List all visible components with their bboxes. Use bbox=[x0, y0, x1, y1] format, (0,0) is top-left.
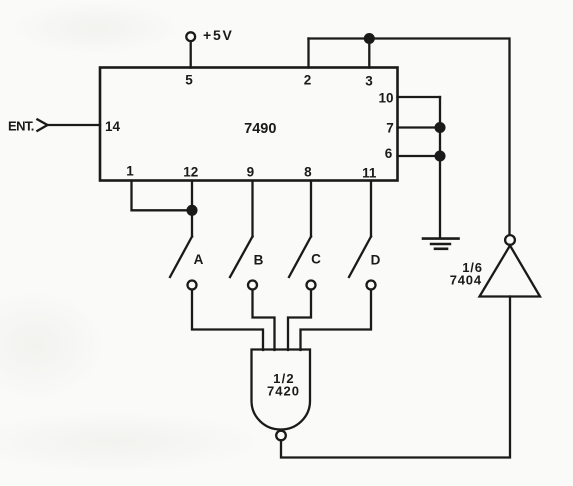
wire pin 12 down bbox=[191, 181, 193, 237]
inverter U3 7404 triangle bbox=[480, 246, 541, 297]
svg-text:14: 14 bbox=[105, 119, 121, 134]
wire switch A to gate input bbox=[192, 290, 263, 351]
svg-text:C: C bbox=[311, 252, 321, 267]
switch D terminal bbox=[367, 281, 376, 290]
wire switch C to gate input bbox=[288, 290, 311, 351]
svg-text:1: 1 bbox=[126, 163, 134, 178]
junction pin 7 bbox=[436, 123, 445, 132]
svg-text:6: 6 bbox=[385, 146, 393, 161]
wire pin 1 bbox=[132, 181, 191, 210]
inverter bubble bbox=[505, 235, 515, 245]
wire switch B to gate input bbox=[253, 290, 275, 351]
svg-text:B: B bbox=[254, 253, 264, 268]
svg-text:7420: 7420 bbox=[267, 384, 300, 399]
svg-text:7490: 7490 bbox=[244, 121, 276, 137]
wire pin 5 to +5V bbox=[190, 41, 192, 67]
switch B arm bbox=[230, 237, 253, 278]
switch B terminal bbox=[248, 281, 257, 290]
junction pin1-pin12 bbox=[188, 206, 197, 215]
wire pin 9 down bbox=[251, 181, 253, 237]
wire pin 6 bbox=[398, 155, 441, 157]
svg-text:8: 8 bbox=[304, 165, 312, 180]
svg-text:11: 11 bbox=[362, 166, 377, 181]
svg-text:7: 7 bbox=[386, 121, 394, 136]
NAND gate U2 7420 body bbox=[252, 350, 311, 430]
wire pins 10,7,6 to ground bbox=[439, 97, 441, 238]
svg-text:+5V: +5V bbox=[203, 27, 234, 43]
svg-text:A: A bbox=[194, 252, 204, 267]
supply +5V terminal bbox=[186, 32, 195, 41]
wire NAND output to inverter input bbox=[281, 297, 510, 458]
NAND output bubble bbox=[276, 431, 286, 441]
wire top bus pins 2,3 to inverter output bubble bbox=[309, 39, 510, 235]
svg-text:7404: 7404 bbox=[450, 273, 482, 288]
svg-text:3: 3 bbox=[365, 74, 373, 89]
wire pin 7 bbox=[398, 126, 441, 128]
switch C terminal bbox=[307, 281, 316, 290]
svg-text:10: 10 bbox=[378, 91, 393, 106]
junction pin 6 bbox=[436, 152, 445, 161]
switch A terminal bbox=[188, 281, 197, 290]
switch A arm bbox=[170, 237, 192, 278]
wire pin 8 down bbox=[310, 181, 312, 237]
IC U1 7490 body bbox=[100, 68, 398, 181]
svg-text:2: 2 bbox=[304, 73, 312, 88]
wire switch D to gate input bbox=[301, 290, 372, 351]
svg-text:12: 12 bbox=[183, 165, 198, 180]
wire pin 10 bbox=[398, 96, 441, 98]
wire pin 3 up bbox=[368, 39, 370, 68]
switch D arm bbox=[349, 237, 371, 278]
svg-text:9: 9 bbox=[247, 165, 255, 180]
wire pin 2 up bbox=[307, 39, 309, 68]
wire ENT to pin 14 bbox=[48, 124, 101, 126]
ground bbox=[423, 239, 459, 249]
arrow ENT input bbox=[37, 119, 47, 130]
switch C arm bbox=[289, 237, 311, 278]
svg-text:5: 5 bbox=[185, 73, 193, 88]
svg-text:D: D bbox=[371, 253, 381, 268]
svg-text:ENT.: ENT. bbox=[8, 119, 34, 134]
wire pin 11 down bbox=[370, 181, 372, 237]
junction pins 2-3 bus bbox=[365, 34, 374, 43]
